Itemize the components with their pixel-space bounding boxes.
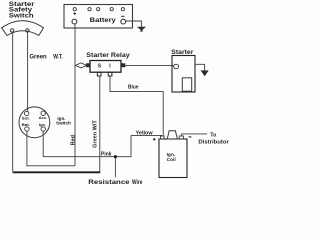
label: Green W.T. <box>29 54 63 60</box>
coil - mark <box>188 136 191 138</box>
battery B1 <box>64 5 133 29</box>
svg-text:Resistance: Resistance <box>88 180 130 186</box>
label: Resistance Wire <box>88 180 143 186</box>
wire: starter case to ground <box>195 64 205 70</box>
ignition switch SW1 body <box>19 107 50 138</box>
svg-text:Yellow: Yellow <box>136 130 153 136</box>
svg-text:Red: Red <box>71 135 77 145</box>
wire: ign switch Ign terminal down to Pink run <box>43 131 131 157</box>
label: Ign. Coil <box>167 152 176 163</box>
starter inner block <box>182 78 191 91</box>
battery + mark <box>73 12 76 15</box>
starter safety switch S1 (arc contact plate) <box>2 21 44 36</box>
wire: safety switch right contact down to ignition switch Sol terminal <box>27 32 29 111</box>
wire: ign switch Bat terminal down-left run to Red wire <box>27 131 75 166</box>
coil + tab <box>161 136 165 139</box>
connector bowtie between battery feed and relay battery tab <box>76 63 87 68</box>
wire: thick bottom green run from safety switch to relay S wire <box>13 171 101 173</box>
svg-text:Coil: Coil <box>167 157 176 163</box>
starter terminal <box>174 64 179 68</box>
wire: coil - tab to distributor <box>182 134 208 136</box>
relay right tab <box>121 64 125 67</box>
wire: relay I tab down then right (Blue wire) then down to coil + <box>110 76 163 136</box>
starter relay K1 body <box>90 61 121 73</box>
label: Ign. Switch <box>56 116 71 126</box>
svg-text:Blue: Blue <box>128 85 139 91</box>
svg-text:Wire: Wire <box>132 180 143 186</box>
ignition switch terminal Bat <box>25 127 29 131</box>
wire: battery negative to chassis ground <box>126 21 142 27</box>
ignition switch terminal labels <box>22 115 48 127</box>
ignition coil T1 body <box>159 139 187 178</box>
coil + mark <box>153 138 156 141</box>
wire: yellow run to coil + tab <box>131 134 162 136</box>
svg-text:Ign.: Ign. <box>39 122 46 127</box>
wire: resistance wire stub from junction <box>114 157 116 178</box>
label: To Distributor <box>198 133 228 146</box>
svg-text:Acc.: Acc. <box>39 115 48 120</box>
svg-text:Distributor: Distributor <box>198 140 228 146</box>
svg-text:Switch: Switch <box>56 121 71 126</box>
wire: relay output to starter terminal <box>125 64 174 66</box>
wire: battery positive down (Red wire run) <box>74 24 76 166</box>
ignition switch terminal Sol <box>25 111 29 115</box>
wire: relay S tab down (Green W/T) to bottom line <box>99 76 101 172</box>
svg-text:Bat.: Bat. <box>22 122 30 127</box>
ignition switch terminal Ign <box>41 127 45 131</box>
svg-text:W.T.: W.T. <box>53 54 63 60</box>
svg-text:Switch: Switch <box>9 13 34 19</box>
relay bottom tab I <box>108 72 112 76</box>
svg-text:Sol.: Sol. <box>22 116 30 121</box>
wire: safety switch left contact down to bottom green wire <box>12 32 14 172</box>
junction node on pink wire <box>114 155 117 158</box>
svg-text:Green: Green <box>29 54 47 60</box>
svg-text:Green W/T: Green W/T <box>93 120 99 148</box>
ground symbol at battery <box>137 27 146 32</box>
svg-text:Pink: Pink <box>101 151 112 157</box>
ground symbol at starter <box>201 70 209 76</box>
battery - mark <box>121 15 124 17</box>
svg-text:Starter Relay: Starter Relay <box>86 53 130 59</box>
relay left tab <box>87 64 91 67</box>
svg-text:To: To <box>210 133 216 139</box>
relay bottom tab S <box>97 72 101 76</box>
starter motor M1 body <box>172 56 195 93</box>
svg-text:Battery: Battery <box>90 17 117 24</box>
label: Starter Safety Switch <box>9 2 35 20</box>
coil tower <box>167 131 177 139</box>
ignition switch terminal Acc <box>41 111 45 115</box>
coil - tab <box>179 136 183 139</box>
